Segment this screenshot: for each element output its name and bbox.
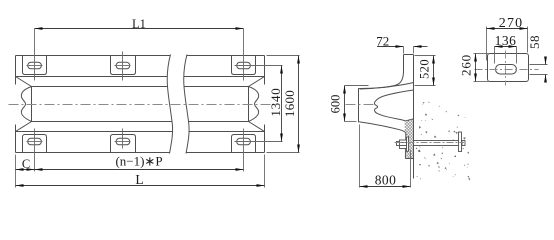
svg-text:600: 600 <box>328 95 342 114</box>
svg-text:(n−1)∗P: (n−1)∗P <box>115 154 162 169</box>
svg-text:58: 58 <box>527 35 542 49</box>
svg-text:520: 520 <box>418 59 432 79</box>
svg-text:72: 72 <box>376 33 389 48</box>
svg-text:1600: 1600 <box>282 90 297 117</box>
svg-text:C: C <box>22 157 30 171</box>
svg-text:1340: 1340 <box>268 87 283 116</box>
svg-text:800: 800 <box>375 173 396 188</box>
svg-text:L1: L1 <box>132 17 146 31</box>
svg-text:L: L <box>135 172 143 187</box>
svg-text:270: 270 <box>499 16 524 31</box>
svg-text:136: 136 <box>495 33 517 48</box>
svg-text:260: 260 <box>459 54 474 76</box>
